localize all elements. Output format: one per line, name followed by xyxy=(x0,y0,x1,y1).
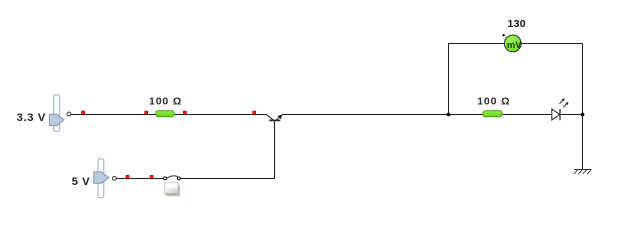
value label 5 V xyxy=(72,176,90,188)
value label 3.3 V xyxy=(17,112,46,124)
voltmeter M1 xyxy=(502,34,522,52)
wire node A to LED anode xyxy=(449,114,552,116)
voltage source V1 (3.3 V slider) xyxy=(49,95,71,131)
resistor R1 xyxy=(156,111,174,117)
svg-text:mV: mV xyxy=(507,39,522,50)
svg-text:3.3 V: 3.3 V xyxy=(17,112,46,124)
value label 100 Ω (R2) xyxy=(477,95,510,107)
svg-text:100 Ω: 100 Ω xyxy=(477,95,510,107)
wire right vertical to ground xyxy=(582,44,584,170)
resistor R2 xyxy=(483,111,502,117)
svg-text:100 Ω: 100 Ω xyxy=(149,95,182,107)
transistor Q1 xyxy=(267,114,282,130)
LED D1 xyxy=(552,99,569,121)
node A (junction) xyxy=(447,113,451,117)
pushbutton icon xyxy=(165,182,180,196)
wire top meter run xyxy=(449,43,583,45)
value label 130 (meter reading) xyxy=(507,18,525,30)
svg-text:130: 130 xyxy=(507,18,525,30)
ground xyxy=(574,169,591,174)
current dots on base wire xyxy=(126,175,153,178)
wire switch S1 to Q1 base xyxy=(180,121,274,179)
switch S1 xyxy=(164,176,181,180)
node B (junction) xyxy=(581,113,585,117)
current dots on main wire xyxy=(82,111,256,114)
wire V1 to Q1 base-left (main wire) xyxy=(71,114,267,116)
wire V2 to switch S1 xyxy=(116,178,163,180)
wire LED cathode to node B xyxy=(560,114,583,116)
svg-text:5 V: 5 V xyxy=(72,176,90,188)
voltage source V2 (5 V slider) xyxy=(94,159,117,198)
wire node A riser xyxy=(448,44,450,115)
wire Q1 right lead to node A xyxy=(282,114,449,116)
value label 100 Ω (R1) xyxy=(149,95,182,107)
